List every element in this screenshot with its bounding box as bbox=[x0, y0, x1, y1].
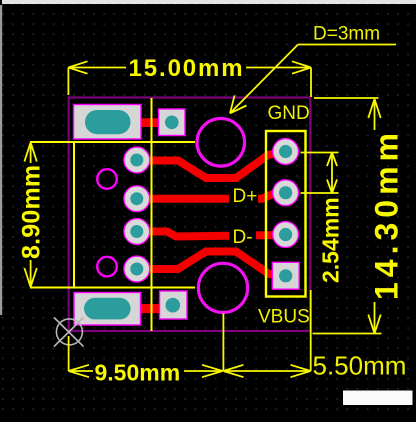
USB connector silkscreen left edge bbox=[73, 142, 75, 288]
USB connector silkscreen top line bbox=[30, 141, 195, 143]
shell via pad bottom (square) bbox=[160, 291, 188, 319]
DIP pad GND bbox=[273, 139, 299, 165]
trace GND (pin1 to GND pad) bbox=[137, 152, 286, 179]
trace D+ bbox=[137, 193, 286, 199]
USB pin pad 3 bbox=[124, 219, 150, 245]
svg-text:GND: GND bbox=[268, 103, 310, 124]
screenshot top border strip bbox=[2, 0, 416, 4]
svg-text:15.00mm: 15.00mm bbox=[129, 55, 245, 82]
origin marker crosshair bbox=[54, 318, 84, 347]
USB pin pad 2 bbox=[124, 186, 150, 212]
USB connector silkscreen right edge bbox=[151, 98, 153, 331]
label D- knockout bbox=[229, 226, 256, 247]
USB shell pad top bbox=[74, 105, 142, 140]
USB shell pad bottom bbox=[74, 293, 141, 326]
DIP header silkscreen box bbox=[266, 131, 306, 297]
svg-text:D-: D- bbox=[233, 227, 253, 248]
svg-text:14.30mm: 14.30mm bbox=[369, 128, 405, 300]
USB pin pad 4 bbox=[124, 256, 150, 282]
dimension 9.50mm bbox=[69, 314, 224, 378]
dimension 5.50mm bbox=[223, 290, 310, 377]
svg-text:5.50mm: 5.50mm bbox=[313, 351, 407, 381]
trace shell top bar bbox=[140, 118, 161, 127]
trace D- bbox=[137, 232, 286, 237]
bottom-right white button bbox=[343, 391, 413, 406]
svg-text:8.90mm: 8.90mm bbox=[18, 165, 46, 259]
PCB board outline bbox=[69, 98, 311, 332]
dimension 15.00mm bbox=[68, 61, 311, 97]
trace shell bottom bar bbox=[140, 304, 161, 313]
DIP pad D+ bbox=[273, 180, 299, 206]
dimension 14.30mm bbox=[313, 98, 382, 334]
trace VBUS (pin4 to VBUS pad) bbox=[137, 252, 286, 276]
dimension 2.54mm bbox=[301, 153, 339, 194]
mounting hole top D=3mm bbox=[197, 119, 245, 167]
label D+ knockout bbox=[229, 184, 258, 205]
mounting hole bottom D=3mm bbox=[198, 263, 247, 312]
DIP pad D- bbox=[273, 222, 299, 248]
USB connector silkscreen bottom line bbox=[30, 287, 195, 289]
shell via pad top (square) bbox=[159, 109, 186, 136]
svg-text:D=3mm: D=3mm bbox=[313, 24, 380, 45]
leader D=3mm bbox=[230, 45, 396, 114]
svg-text:9.50mm: 9.50mm bbox=[95, 360, 181, 386]
svg-text:2.54mm: 2.54mm bbox=[318, 197, 344, 283]
USB post hole top bbox=[97, 169, 117, 189]
dimension 8.90mm bbox=[24, 143, 36, 288]
USB pin pad 1 bbox=[124, 147, 150, 173]
USB post hole bottom bbox=[97, 257, 117, 277]
screenshot left border strip bbox=[0, 5, 2, 315]
DIP pad VBUS (square) bbox=[272, 262, 299, 289]
svg-text:D+: D+ bbox=[233, 186, 258, 207]
svg-text:VBUS: VBUS bbox=[258, 306, 310, 327]
